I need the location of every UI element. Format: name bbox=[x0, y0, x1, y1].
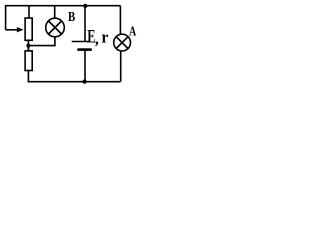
wire top bus bbox=[6, 6, 121, 30]
node battery-bottom junction dot bbox=[82, 80, 86, 84]
wire lamp A bottom to bottom bus bbox=[120, 51, 122, 82]
wire slider arm horizontal bbox=[6, 29, 18, 31]
wire lamp B top to top bus bbox=[54, 6, 56, 19]
wire bottom bus bbox=[28, 81, 121, 83]
rheostat R1 box bbox=[25, 18, 32, 40]
svg-text:,: , bbox=[95, 31, 99, 48]
wire rheostat bottom to node bbox=[27, 40, 29, 51]
svg-text:B: B bbox=[68, 10, 75, 25]
wire node to lamp B bottom bbox=[28, 37, 55, 46]
rheostat slider arrowhead bbox=[17, 27, 24, 32]
resistor R2 box bbox=[25, 51, 32, 71]
node junction dot (rheostat / lamp B / R2) bbox=[26, 44, 30, 48]
wire R2 bottom to bottom bus bbox=[27, 71, 29, 82]
lamp B circle bbox=[46, 18, 65, 37]
lamp A circle bbox=[114, 34, 131, 51]
svg-text:A: A bbox=[129, 24, 137, 39]
battery E,r negative plate (short thick) bbox=[77, 48, 92, 51]
wire battery top lead bbox=[84, 6, 86, 42]
wire battery bottom lead bbox=[84, 50, 86, 82]
wire rheostat top to top bus bbox=[28, 6, 30, 18]
wire right branch top (top bus corner to lamp A) bbox=[119, 6, 121, 34]
wire node to R2 top bbox=[27, 46, 29, 51]
lamp A cross bbox=[116, 37, 128, 49]
battery E,r positive plate (long) bbox=[72, 41, 89, 43]
lamp B cross bbox=[49, 21, 62, 34]
node battery top junction dot bbox=[83, 4, 87, 8]
svg-text:r: r bbox=[101, 27, 108, 46]
